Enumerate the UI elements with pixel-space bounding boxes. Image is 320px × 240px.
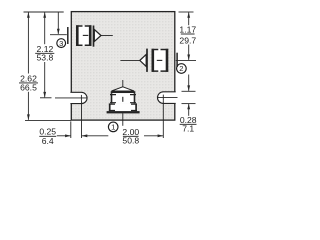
svg-text:29.7: 29.7 xyxy=(179,35,196,45)
svg-text:0.25: 0.25 xyxy=(39,127,56,137)
svg-text:50.8: 50.8 xyxy=(122,136,139,146)
svg-text:66.5: 66.5 xyxy=(20,82,37,92)
svg-text:7.1: 7.1 xyxy=(182,124,194,134)
svg-text:2: 2 xyxy=(179,64,183,73)
svg-text:1.17: 1.17 xyxy=(179,25,196,35)
svg-text:3: 3 xyxy=(59,39,63,48)
svg-text:53.8: 53.8 xyxy=(37,53,54,63)
svg-text:6.4: 6.4 xyxy=(42,136,54,146)
svg-text:1: 1 xyxy=(111,123,115,132)
